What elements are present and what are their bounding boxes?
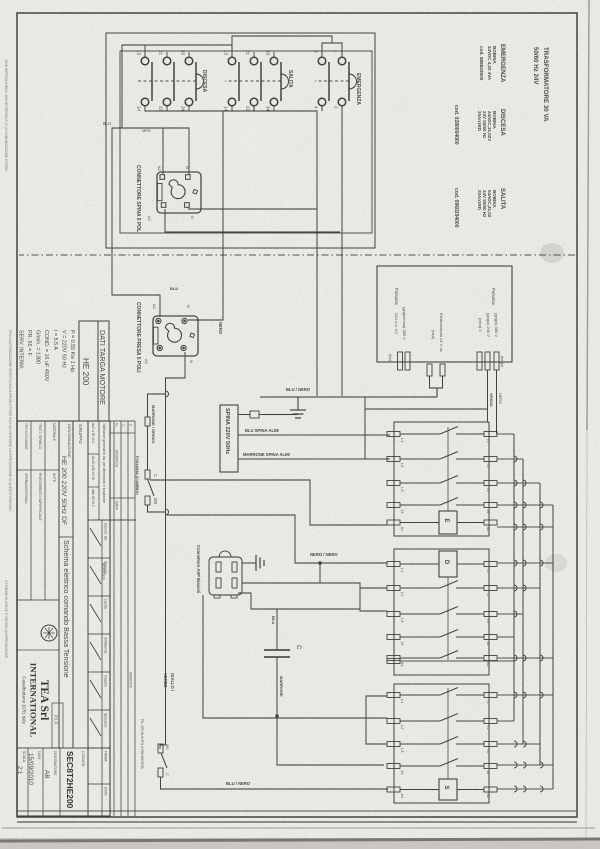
wire nero to presa top — [188, 111, 223, 320]
P.I.F. cell — [52, 703, 63, 748]
revision table full-width rows — [134, 421, 136, 816]
contactor S pole L1-T1 — [484, 693, 497, 698]
contact terminals row y=455 — [141, 57, 149, 65]
contactor D pole L3-T3 — [484, 612, 497, 617]
contactor S linkage line — [447, 688, 449, 779]
scan edge right band — [0, 838, 600, 849]
ground symbol GND1 — [290, 409, 306, 411]
wire marrone spina alim — [238, 458, 390, 460]
contact terminals row y=258 — [338, 57, 346, 65]
ground symbol GND2 — [242, 562, 256, 564]
denominazione cell — [58, 421, 60, 748]
contactor S pole L3-T3 — [484, 742, 497, 747]
wire D block right internal riser — [400, 660, 514, 662]
bus line 4 — [552, 505, 554, 789]
contactor D pole L1-T1 — [484, 562, 497, 567]
contactor E pole L3-T3 — [484, 481, 497, 486]
wire W3 salita-13 to emergenza bridge — [232, 36, 332, 57]
pendant enclosure outer box — [106, 33, 375, 248]
wire emergenza bridge — [322, 43, 342, 57]
contact terminals row y=368 — [228, 57, 236, 65]
pushbutton pendant box — [377, 266, 512, 362]
wire capacitor top to valve wire — [276, 609, 278, 650]
wire D-coil feed — [167, 515, 387, 563]
bus line 1 — [513, 434, 515, 721]
bus feeder x=658 — [497, 657, 553, 659]
plug P1 SPINA 220V 50Hz box — [220, 405, 238, 472]
contactor S pole A1-A2 — [484, 787, 497, 792]
bus feeder x=505 — [497, 504, 553, 506]
wire W4a salita-14 tap — [253, 107, 255, 112]
wire valve to D row — [238, 593, 360, 609]
bus feeder x=434 — [497, 433, 514, 435]
wire to S coil — [161, 777, 389, 789]
contactor E coil box — [439, 511, 457, 534]
wire spina connector riser to W4 — [188, 208, 317, 210]
connector X1 body — [157, 172, 201, 213]
bus feeder x=765 — [497, 764, 553, 766]
title block outline — [17, 421, 110, 816]
junction valve tee — [242, 583, 387, 611]
wire mpd branch to spina connector — [122, 128, 189, 174]
frame double line right — [17, 810, 576, 812]
contactor E pole L2-T2 — [484, 457, 497, 462]
wire S rows link — [366, 696, 387, 744]
contactor D outline — [394, 549, 489, 675]
wire pendant valve pair U-link — [430, 376, 443, 388]
tolerance cells — [87, 421, 89, 816]
contactor E pole 13-14 — [484, 503, 497, 508]
bus line 3 — [539, 483, 541, 765]
contactor D pole L2-T2 — [484, 586, 497, 591]
contact C terminal — [145, 470, 150, 479]
wire cap crossover to S b4 — [277, 716, 384, 765]
contact terminals row y=326 — [270, 57, 278, 65]
contactor E linkage line — [447, 427, 449, 511]
bus feeder x=614 — [497, 613, 523, 615]
fuse F1 — [250, 411, 259, 418]
bus feeder x=563 — [497, 562, 553, 564]
contactor D pole 13-14 — [484, 635, 497, 640]
scan edge top — [587, 0, 589, 430]
contactor D coil box — [439, 551, 457, 577]
switch S-SALITA actuator link — [225, 80, 281, 82]
bus feeder x=588 — [497, 587, 540, 589]
wire main jog to switch — [160, 745, 166, 749]
pendant terminal slots group A — [405, 352, 410, 370]
bus feeder x=483 — [497, 482, 540, 484]
dati targa motore box — [79, 321, 109, 421]
wire to ground — [297, 397, 299, 410]
wire W1 blu feed from DISCESA 13 to presa connector — [112, 45, 160, 317]
wire capacitor bottom run — [276, 657, 278, 716]
capacitor C motor run — [264, 649, 290, 651]
wire tie discesa-13 to salita-13 — [145, 44, 232, 46]
contact terminals row y=433 — [163, 57, 171, 65]
wire pendant group C to E-block — [487, 370, 489, 422]
wire spina connector A1 drop — [165, 209, 340, 232]
contactor S pole 13-14 — [484, 764, 497, 769]
wire E-coil feed — [150, 480, 387, 525]
machining strip header line — [101, 520, 103, 816]
contactor E pole A1-A2 — [484, 520, 497, 525]
pendant enclosure inner box — [120, 51, 372, 233]
gruppo cell — [72, 421, 74, 748]
connector X2 body — [153, 316, 198, 356]
contactor S outline — [394, 684, 489, 803]
contactor D linkage line — [447, 577, 449, 660]
wire main control run — [166, 352, 186, 745]
wire pendant group C top to E-block top — [496, 370, 498, 434]
microswitch MS bypass branch — [166, 391, 169, 397]
wire valve bottom to S block — [203, 595, 387, 718]
contact terminals row y=346 — [250, 57, 258, 65]
wire horizontal link ly235 — [364, 397, 366, 459]
bus feeder x=721 — [497, 720, 514, 722]
microswitch MS arm — [148, 479, 155, 496]
bus feeder x=789 — [497, 788, 553, 790]
codice cell — [87, 748, 89, 816]
bus feeder x=459 — [497, 458, 523, 460]
wire W4b emergenza lower tap — [321, 107, 323, 112]
contact terminals row y=278 — [318, 57, 326, 65]
wire G3 row to nero drop — [341, 107, 343, 397]
manufacturer logo — [41, 625, 57, 641]
contactor S pole L2-T2 — [484, 719, 497, 724]
switch S-EMERGENZA actuator link — [315, 80, 349, 82]
contact terminals row y=411 — [185, 57, 193, 65]
limit switch FC1 — [158, 744, 163, 753]
scan smudge blob 2 — [545, 554, 567, 572]
wire pendant group A vertical — [260, 396, 437, 398]
bus feeder x=637 — [497, 636, 514, 638]
contact MS terminal — [145, 496, 150, 505]
contactor D pole A1-A2 — [484, 656, 497, 661]
scan smudge blob 1 — [540, 243, 564, 263]
wire blu spina alim — [238, 434, 390, 436]
connector X3 Connettore ASP Bianchi — [209, 557, 242, 595]
wire D row 588 link — [360, 587, 387, 589]
bus line 2 — [522, 459, 524, 744]
contactor S coil box — [439, 779, 457, 800]
switch S-DISCESA actuator link — [138, 80, 196, 82]
bus feeder x=695 — [497, 694, 553, 696]
contactor E pole L1-T1 — [484, 432, 497, 437]
bus feeder x=527 — [497, 526, 553, 528]
wire W4 common return — [145, 107, 317, 397]
pendant terminal slots group B — [440, 364, 445, 376]
material cells — [44, 421, 46, 600]
bus feeder x=744 — [497, 743, 540, 745]
contactor E outline — [394, 422, 489, 536]
zone separator dash-dot line — [19, 254, 575, 256]
pendant terminal slots group C — [494, 352, 499, 370]
